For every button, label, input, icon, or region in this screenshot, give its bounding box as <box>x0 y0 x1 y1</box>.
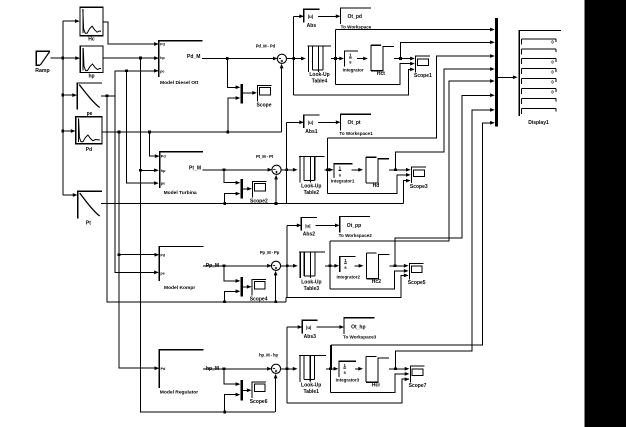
svg-text:Hcr: Hcr <box>372 383 380 389</box>
wire row4 subsystem output to sum <box>203 367 272 371</box>
mux row1 <box>240 84 243 104</box>
svg-text:Look-Up: Look-Up <box>301 183 321 189</box>
wire ramp bus vertical <box>62 21 64 195</box>
subsystem Model Turbina <box>160 152 204 196</box>
svg-text:Scope2: Scope2 <box>250 199 268 205</box>
scope Scope1 <box>414 56 432 79</box>
svg-text:Integrator2: Integrator2 <box>336 275 360 280</box>
svg-text:Pd: Pd <box>160 43 166 47</box>
scope Scope3 <box>410 167 428 190</box>
lookup table row4 <box>299 356 326 395</box>
svg-text:|u|: |u| <box>306 325 311 330</box>
wire integrator to hct row2 <box>351 168 363 172</box>
scope Scope7 <box>409 366 427 389</box>
svg-text:Integrator3: Integrator3 <box>336 378 360 383</box>
wire integrator to hct row3 <box>354 264 363 268</box>
svg-text:Abs: Abs <box>307 23 317 29</box>
wire scope in2 row3 <box>330 269 409 289</box>
wire row3 subsystem output to sum <box>203 264 272 268</box>
svg-text:0: 0 <box>551 69 554 74</box>
integrator row1 <box>343 51 364 72</box>
block Hc <box>80 7 103 42</box>
wire mux to display <box>498 75 518 79</box>
svg-text:Pt: Pt <box>86 220 91 226</box>
wire row1 to mux in1 <box>227 59 240 90</box>
svg-text:Abs3: Abs3 <box>304 334 316 340</box>
wire hct to scope row2 <box>389 168 411 172</box>
svg-text:Abs1: Abs1 <box>305 129 317 135</box>
block Hcr <box>366 357 389 389</box>
wire row4 lut to display mux in8 <box>331 121 494 369</box>
wire lut to integrator row1 <box>331 57 344 61</box>
display Display1 <box>519 30 561 126</box>
wire pe branch to row2 port3 <box>127 71 159 185</box>
subsystem Model Regulator <box>159 350 219 396</box>
block Pd <box>76 117 102 153</box>
block hp <box>80 46 103 80</box>
wire lut to integrator row2 <box>325 168 334 172</box>
svg-text:Hc: Hc <box>88 36 95 42</box>
wire row3 sum feedback riser <box>274 271 278 302</box>
svg-text:Scope5: Scope5 <box>408 280 426 286</box>
svg-text:Pd: Pd <box>161 367 167 371</box>
svg-text:1: 1 <box>339 165 342 170</box>
svg-text:Hct: Hct <box>377 71 385 77</box>
svg-text:s: s <box>344 265 347 270</box>
wire Pd bus to row3 and row4 port1 <box>118 132 160 370</box>
wire row1 hct to display mux in2 <box>400 40 494 58</box>
scope Scope4 <box>250 279 268 302</box>
svg-text:Display1: Display1 <box>528 120 549 126</box>
block Abs3 <box>302 320 318 340</box>
block To Workspace2 <box>339 217 373 239</box>
wire abs to workspace row2 <box>318 120 341 124</box>
wire sum to lut row1 <box>287 57 306 61</box>
sum row3 <box>260 250 281 270</box>
svg-text:hp: hp <box>160 56 165 60</box>
scope Scope <box>256 85 271 108</box>
subsystem Model Diesel Ott <box>159 41 203 86</box>
wire abs to workspace row3 <box>316 224 340 228</box>
wire lut junction vertical row2 <box>326 138 329 194</box>
scope Scope6 <box>250 382 268 405</box>
svg-text:Table1: Table1 <box>303 389 319 395</box>
svg-text:Model Regulator: Model Regulator <box>160 390 198 396</box>
wire row3 feedback jog <box>286 297 287 301</box>
wire row2 lut to display mux in3 <box>328 54 495 138</box>
svg-text:|u|: |u| <box>305 223 310 228</box>
wire row2 subsystem output to sum <box>203 168 273 172</box>
sum row1 <box>256 44 287 64</box>
svg-text:To Workspace3: To Workspace3 <box>343 334 377 339</box>
svg-text:Table4: Table4 <box>312 79 328 85</box>
svg-text:0: 0 <box>551 40 554 45</box>
lookup table row2 <box>299 156 324 196</box>
svg-text:Hc2: Hc2 <box>372 279 381 285</box>
wire integrator to hct row1 <box>357 57 368 61</box>
svg-text:0: 0 <box>551 89 554 94</box>
mux row2 <box>240 179 243 198</box>
svg-text:Integrator1: Integrator1 <box>331 179 355 184</box>
block To Workspace1 <box>339 114 373 136</box>
wire row4 abs vertical <box>286 327 289 403</box>
wire row1 sum feedback riser <box>280 64 284 132</box>
svg-text:Scope6: Scope6 <box>250 399 268 405</box>
wire row1 lut to display mux in1 <box>336 28 495 32</box>
wire abs to workspace row1 <box>318 14 341 18</box>
svg-text:Abs2: Abs2 <box>303 231 315 237</box>
wire hp bus down <box>139 58 275 413</box>
wire row1 mux to scope <box>243 91 257 95</box>
svg-text:Scope1: Scope1 <box>414 73 432 79</box>
lookup table row3 <box>299 252 325 292</box>
wire sum to lut row2 <box>281 168 298 172</box>
sum row4 <box>259 353 281 374</box>
scope Scope2 <box>250 181 268 204</box>
svg-text:Ramp: Ramp <box>35 68 49 74</box>
svg-text:Table3: Table3 <box>304 286 320 292</box>
wire row3 abs vertical <box>286 225 289 297</box>
wire Ramp output <box>50 56 80 60</box>
wire scope in2 row1 <box>336 62 415 85</box>
wire pe output <box>101 94 115 97</box>
svg-text:Pp_M - Pp: Pp_M - Pp <box>260 250 280 255</box>
block Abs2 <box>301 217 317 237</box>
svg-text:Ot_pp: Ot_pp <box>347 223 361 229</box>
wire Pd bus arrow row3 port1 <box>119 253 159 257</box>
svg-text:s: s <box>349 60 352 65</box>
svg-text:Ot_hp: Ot_hp <box>351 325 365 331</box>
svg-text:Pd_M - Pd: Pd_M - Pd <box>256 44 276 49</box>
wire row1 feedback to mux in2 <box>228 96 241 132</box>
source Ramp <box>35 51 50 74</box>
wire sum to lut row3 <box>281 264 298 268</box>
wire hp bus to row2 port2 <box>140 168 158 172</box>
wire row3 into abs <box>287 224 301 228</box>
mux row4 <box>240 380 243 401</box>
svg-text:Pd: Pd <box>160 253 166 257</box>
svg-text:|u|: |u| <box>308 120 313 125</box>
svg-text:Ot_pd: Ot_pd <box>348 14 362 20</box>
mux display input <box>495 18 498 126</box>
wire scope in2 row2 <box>328 173 411 193</box>
svg-text:1: 1 <box>349 53 352 58</box>
block Abs1 <box>304 115 320 135</box>
lookup table row1 <box>307 46 331 85</box>
wire row4 sum feedback riser <box>274 374 278 412</box>
black band right side <box>585 0 626 427</box>
svg-text:Pd: Pd <box>86 147 92 153</box>
svg-text:Scope: Scope <box>256 103 271 109</box>
wire sum to lut row4 <box>281 367 298 371</box>
svg-text:Ot_pt: Ot_pt <box>348 120 361 126</box>
wire hct to scope row4 <box>389 367 409 371</box>
wire bus to Hc <box>63 19 80 23</box>
wire row1 sum junction vertical and scope1 in3 <box>292 16 415 95</box>
wire integrator to hct row4 <box>355 367 363 371</box>
wire bus to Pt <box>63 193 78 197</box>
svg-text:1: 1 <box>343 363 346 368</box>
svg-text:0: 0 <box>551 79 554 84</box>
wire pe bus to row3 port2 <box>115 96 159 274</box>
wire row2 into abs <box>287 120 304 124</box>
wire row1 into abs <box>294 14 304 18</box>
svg-text:Look-Up: Look-Up <box>301 382 321 388</box>
wire Pd branch to row2 port1 <box>149 132 159 158</box>
integrator row4 <box>336 361 360 382</box>
wire Pd output line <box>102 131 282 134</box>
svg-text:pe: pe <box>160 69 164 73</box>
wire bus to Pd <box>61 129 75 133</box>
svg-text:Scope3: Scope3 <box>410 184 428 190</box>
wire row4 to mux in1 <box>224 369 240 386</box>
svg-text:Pt_M - Pt: Pt_M - Pt <box>256 154 274 159</box>
wire row4 feedback to mux in2 <box>225 393 241 412</box>
block Abs <box>304 9 320 29</box>
svg-text:Scope4: Scope4 <box>250 297 268 303</box>
svg-text:Look-Up: Look-Up <box>301 279 321 285</box>
svg-text:Hd: Hd <box>373 183 380 189</box>
svg-text:|u|: |u| <box>308 14 313 19</box>
wire hct to scope row3 <box>389 264 408 268</box>
svg-text:hp: hp <box>161 169 166 173</box>
wire row2 feedback to mux in2 <box>225 192 241 204</box>
svg-text:To Workspace1: To Workspace1 <box>339 131 373 136</box>
wire row3 to mux in1 <box>224 266 240 283</box>
wire scope3 in3 <box>403 179 410 204</box>
wire scope7 in3 <box>287 377 409 403</box>
block Pt <box>78 191 102 226</box>
wire hct to scope row1 <box>394 57 415 61</box>
block Hd <box>366 157 389 189</box>
svg-text:Look-Up: Look-Up <box>309 72 329 78</box>
integrator row3 <box>336 256 360 279</box>
wire pe riser to subsystem1 port3 <box>115 69 159 96</box>
wire row3 mux to scope <box>243 285 252 289</box>
wire row2 sum feedback riser <box>274 175 278 204</box>
svg-text:0: 0 <box>551 60 554 65</box>
integrator row2 <box>331 164 355 184</box>
wire Pt output line <box>101 202 403 205</box>
wire row4 into abs <box>287 325 302 329</box>
wire row2 abs vertical <box>285 122 288 203</box>
svg-text:Model Kompr: Model Kompr <box>164 285 195 291</box>
wire row4 hct to display mux in7 <box>395 108 494 369</box>
wire row4 mux to scope <box>243 388 252 392</box>
wire row3 hct to display mux in6 <box>395 93 495 265</box>
svg-text:Table2: Table2 <box>304 190 320 196</box>
wire row1 subsystem output to sum <box>202 57 278 61</box>
wire lut junction vertical row1 <box>334 30 337 85</box>
wire scope in2 row4 <box>331 372 410 393</box>
svg-text:Pd_M: Pd_M <box>187 54 200 60</box>
svg-text:Model Diesel Ott: Model Diesel Ott <box>160 80 199 86</box>
wire abs to workspace row4 <box>316 325 344 329</box>
wire pe bus down to row3 feedback <box>107 96 286 303</box>
svg-text:s: s <box>339 172 342 177</box>
wire row3 lut to display mux in5 <box>330 79 495 241</box>
svg-text:Scope7: Scope7 <box>409 383 427 389</box>
wire scope5 in3 <box>287 274 408 298</box>
block Hc2 <box>366 253 389 285</box>
block Hct <box>371 45 394 77</box>
wire bus to pe <box>61 93 77 97</box>
wire Hc to subsystem1 port1 <box>103 22 159 46</box>
wire row2 to mux in1 <box>224 170 240 185</box>
svg-text:To Workspace2: To Workspace2 <box>339 233 373 238</box>
sum row2 <box>256 154 281 174</box>
svg-text:hp: hp <box>88 74 94 80</box>
subsystem Model Kompr <box>159 247 219 292</box>
scope Scope5 <box>408 263 426 286</box>
wire row2 mux to scope <box>243 187 252 191</box>
svg-text:Pt_M: Pt_M <box>189 165 201 171</box>
wire lut to integrator row3 <box>325 264 339 268</box>
wire lut junction vertical row3 <box>329 241 332 289</box>
wire lut junction vertical row4 <box>329 345 332 393</box>
block pe <box>77 83 102 117</box>
svg-text:hp_M - hp: hp_M - hp <box>259 353 278 358</box>
mux row3 <box>240 277 243 297</box>
svg-text:To Workspace: To Workspace <box>341 25 372 30</box>
block To Workspace <box>341 8 372 30</box>
wire row3 feedback to mux in2 <box>224 289 240 301</box>
svg-text:Pd: Pd <box>161 155 167 159</box>
block To Workspace3 <box>343 318 377 340</box>
wire hp output <box>103 56 159 60</box>
svg-text:pe: pe <box>161 182 165 186</box>
svg-text:1: 1 <box>344 258 347 263</box>
svg-text:Model Turbina: Model Turbina <box>164 190 197 196</box>
svg-text:Integrator: Integrator <box>343 67 364 72</box>
svg-text:pe: pe <box>160 271 164 275</box>
wire row2 hct to display mux in4 <box>396 67 495 170</box>
svg-text:s: s <box>343 370 346 375</box>
wire lut to integrator row4 <box>326 367 338 371</box>
